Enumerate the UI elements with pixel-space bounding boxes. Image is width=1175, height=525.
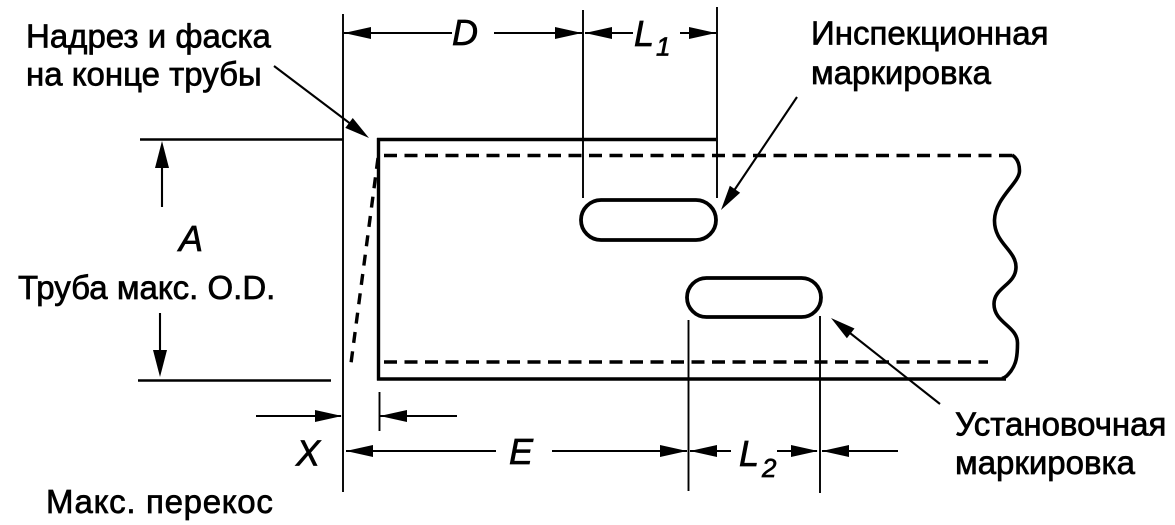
svg-text:E: E <box>509 431 534 472</box>
svg-text:A: A <box>177 218 203 259</box>
svg-text:Надрез и фаска: Надрез и фаска <box>26 18 271 55</box>
svg-text:2: 2 <box>761 453 777 483</box>
svg-text:X: X <box>295 433 322 474</box>
svg-text:на конце трубы: на конце трубы <box>26 56 262 93</box>
svg-text:L: L <box>739 433 759 474</box>
svg-text:Труба макс. O.D.: Труба макс. O.D. <box>18 269 275 306</box>
svg-text:Макс. перекос: Макс. перекос <box>46 483 274 520</box>
svg-text:D: D <box>452 12 478 53</box>
svg-text:маркировка: маркировка <box>811 54 992 91</box>
svg-text:L: L <box>634 13 654 54</box>
svg-text:Инспекционная: Инспекционная <box>811 15 1048 52</box>
svg-text:маркировка: маркировка <box>955 444 1136 481</box>
svg-text:Установочная: Установочная <box>955 406 1166 443</box>
svg-text:1: 1 <box>656 32 670 62</box>
